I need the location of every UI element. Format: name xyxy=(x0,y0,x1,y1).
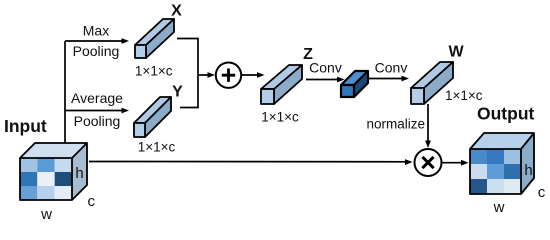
max-pooled vector X xyxy=(135,19,174,58)
svg-text:h: h xyxy=(75,165,83,182)
bottom long arrow from input to multiplier xyxy=(89,161,408,163)
max pooling arrow xyxy=(65,40,124,42)
arrow adder to Z xyxy=(242,74,260,76)
svg-text:1×1×c: 1×1×c xyxy=(135,63,173,78)
svg-text:Conv: Conv xyxy=(375,60,408,76)
output cube xyxy=(470,133,534,194)
conv arrow 1 xyxy=(306,79,340,81)
svg-text:normalize: normalize xyxy=(366,117,425,132)
conv arrow 2 xyxy=(368,78,404,80)
svg-text:Input: Input xyxy=(4,116,47,136)
svg-text:Pooling: Pooling xyxy=(74,113,121,129)
svg-text:Average: Average xyxy=(71,90,123,106)
attention vector W xyxy=(411,62,453,104)
svg-text:h: h xyxy=(524,162,532,179)
conv feature cube xyxy=(341,71,368,97)
svg-text:w: w xyxy=(40,206,52,222)
svg-text:X: X xyxy=(171,3,182,20)
svg-text:Output: Output xyxy=(477,104,535,124)
avg-pooled vector Y xyxy=(134,97,171,137)
average pooling arrow xyxy=(65,110,124,112)
svg-text:Y: Y xyxy=(172,84,183,101)
bracket joining X and Y xyxy=(177,39,198,108)
multiplier circle xyxy=(415,149,442,176)
svg-text:c: c xyxy=(538,184,546,201)
arrow to adder xyxy=(198,74,210,76)
fused vector Z xyxy=(261,65,302,104)
svg-text:Max: Max xyxy=(83,23,109,39)
arrow multiplier to output xyxy=(443,162,464,164)
svg-text:W: W xyxy=(448,43,464,60)
svg-text:Pooling: Pooling xyxy=(73,43,120,59)
adder circle xyxy=(216,62,241,87)
input cube xyxy=(20,143,87,200)
wire branch vertical xyxy=(64,41,66,143)
svg-text:c: c xyxy=(87,193,95,210)
svg-text:1×1×c: 1×1×c xyxy=(445,88,483,103)
normalize arrow xyxy=(427,104,429,143)
svg-text:w: w xyxy=(493,199,505,216)
svg-text:1×1×c: 1×1×c xyxy=(261,110,299,125)
svg-text:Conv: Conv xyxy=(309,60,342,76)
svg-text:1×1×c: 1×1×c xyxy=(138,140,176,155)
